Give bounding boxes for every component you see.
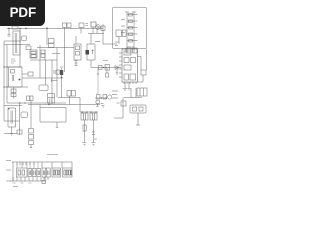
B1 contact a xyxy=(75,46,80,50)
ground G2 xyxy=(92,143,96,147)
C15 plates xyxy=(83,113,85,120)
wire y105.5 xyxy=(4,105,22,107)
capacitor C11 xyxy=(72,91,76,97)
wire R18 leg xyxy=(96,104,98,107)
rung ticks top xyxy=(125,11,136,13)
outer module box right xyxy=(112,7,146,48)
capacitor C13 xyxy=(30,96,33,101)
wire C10 leg xyxy=(69,96,71,105)
relay box B2 xyxy=(87,44,95,60)
wire transformer right leg xyxy=(19,29,21,68)
wire x58 xyxy=(56,48,58,98)
diode D5 xyxy=(129,14,133,17)
wire outer box right drop xyxy=(146,49,148,71)
diode D13 xyxy=(92,132,95,135)
transistor Q1 xyxy=(96,25,101,30)
B2 contact marks xyxy=(92,50,95,55)
capacitor C7 ticks xyxy=(75,61,78,66)
wire bus y104 xyxy=(28,104,100,106)
capacitor C9 xyxy=(141,70,146,75)
J1 pin a xyxy=(18,170,21,175)
wire R7 leg xyxy=(80,28,82,34)
diode D11 xyxy=(133,48,138,53)
output box top xyxy=(137,88,147,96)
J1 pin b xyxy=(22,170,25,175)
resistor R17 xyxy=(83,125,86,131)
wire x40 xyxy=(39,45,41,78)
relay box B1 xyxy=(74,44,81,60)
ground T3 xyxy=(10,134,13,136)
J6 pin b xyxy=(56,170,58,175)
node junction dots top bus xyxy=(8,28,26,29)
J7 pin a xyxy=(64,170,66,175)
wire y112 xyxy=(80,111,98,113)
varistor ladder a xyxy=(29,129,34,134)
resistor R13 xyxy=(17,130,22,134)
bridge rectifier BR1 xyxy=(30,50,37,58)
secondary rail right xyxy=(133,12,135,53)
capacitor CX1 xyxy=(8,29,11,37)
wire stub x117 xyxy=(116,68,118,74)
fuse F1 xyxy=(12,26,18,29)
wire Q2 stub xyxy=(61,68,63,98)
node dots y98 xyxy=(101,97,107,98)
wire bus y97 xyxy=(58,97,80,99)
wire R14 feed xyxy=(97,74,99,95)
resistor R5 xyxy=(41,50,45,54)
wire y41 xyxy=(4,40,21,42)
label text y67 xyxy=(60,66,64,68)
label TH1 xyxy=(117,102,120,104)
U1 inner block e xyxy=(124,74,129,80)
bottom drops xyxy=(13,177,45,181)
page background xyxy=(0,0,149,198)
resistor R8 xyxy=(101,26,105,31)
connector J6 xyxy=(52,168,61,177)
stub wires right rail xyxy=(134,15,138,41)
snubber box RC1 xyxy=(22,36,27,41)
connector J1 xyxy=(17,168,28,177)
bottom row label a xyxy=(6,160,11,162)
U1 pins left xyxy=(119,53,122,77)
wire x76 xyxy=(75,36,77,66)
wire x103 xyxy=(102,24,104,44)
diode D4 xyxy=(67,23,71,28)
wire y67 xyxy=(4,66,22,68)
connector J4 xyxy=(37,169,41,177)
varistor ladder b xyxy=(29,135,34,140)
IC U1 xyxy=(122,49,138,82)
U1 inner block b xyxy=(124,58,129,63)
J7 pin b xyxy=(66,170,68,175)
thermistor TH1 xyxy=(121,101,126,106)
wire y121 xyxy=(4,120,20,122)
node dot x47 xyxy=(46,28,47,29)
wire y133.5 xyxy=(4,133,17,135)
J6 pin c xyxy=(58,170,60,175)
capacitor C10 xyxy=(67,91,71,97)
diode D7 xyxy=(129,27,133,30)
transformer T1 xyxy=(13,31,20,55)
resistor R9 xyxy=(99,66,103,70)
J5b pin xyxy=(48,171,49,176)
node dots bus y67 xyxy=(103,67,121,68)
output box verticals xyxy=(140,88,144,96)
diode D2 xyxy=(28,72,33,76)
transformer T2 aux xyxy=(48,94,55,104)
wire x19.5 xyxy=(19,103,21,135)
T2 dashes xyxy=(50,99,52,103)
snubber box RC2 xyxy=(21,112,28,118)
Q1 legs xyxy=(97,26,100,29)
wire left rail B xyxy=(6,45,8,104)
resistor R10 xyxy=(106,68,108,73)
wire bus y67 xyxy=(91,67,119,69)
B1 contact b xyxy=(75,52,80,56)
resistor R2 cluster xyxy=(11,59,16,63)
ground U1 b xyxy=(128,82,131,90)
connector J7 xyxy=(63,168,73,177)
svg-text:PDF: PDF xyxy=(10,5,36,20)
relay box K1 xyxy=(105,65,110,71)
capacitor C12 xyxy=(27,96,30,101)
secondary rail left xyxy=(126,12,128,53)
ground U1 a xyxy=(123,82,127,90)
inner rect U2 sub xyxy=(11,70,15,74)
optocoupler U3b xyxy=(49,44,55,48)
J5a pin xyxy=(43,171,44,176)
resistor R16 xyxy=(56,70,59,74)
connector J2 xyxy=(28,169,32,177)
T3 core dashes xyxy=(11,111,12,124)
resistor R3 xyxy=(11,89,16,93)
PDF badge xyxy=(0,0,45,26)
wire y33.5 xyxy=(88,33,104,35)
wire y44 right xyxy=(103,43,117,45)
wire U1 right to C9 xyxy=(138,57,142,71)
wire y87 xyxy=(4,86,28,88)
wire loop tail xyxy=(56,122,58,128)
wire y44.5 xyxy=(4,44,30,46)
wire drops to J5 xyxy=(42,162,72,168)
resistor R7 xyxy=(79,23,84,28)
bridge BR1 cells xyxy=(31,52,36,55)
IC U2 switching block xyxy=(9,67,23,87)
capacitor C6 xyxy=(91,22,96,27)
B2 coil blob xyxy=(86,50,90,55)
wire bus y78 xyxy=(22,77,63,79)
wire C15 leg xyxy=(84,120,86,142)
wire bottom bus y162 xyxy=(12,161,72,163)
diode D6 xyxy=(129,20,133,23)
transformer T1 core dashes xyxy=(15,33,17,53)
label text U1 below xyxy=(112,91,118,98)
wire y80.5 xyxy=(52,79,58,82)
U1 inner block d xyxy=(124,65,131,70)
resistor R15 xyxy=(103,95,107,100)
connector CN2 xyxy=(130,105,146,113)
wire C9 leg xyxy=(138,75,144,82)
J3 pin xyxy=(34,171,35,176)
U1 inner block c xyxy=(131,58,136,63)
wire left rail A xyxy=(3,41,5,121)
wire bus y60 xyxy=(30,59,57,61)
capacitor C14 ticks xyxy=(53,71,56,73)
wire stub x98 xyxy=(97,68,99,74)
wire Q1 legs xyxy=(93,27,97,34)
T2 divider xyxy=(48,97,55,99)
capacitor C5 xyxy=(26,46,31,50)
label above bus xyxy=(103,60,108,62)
bottom connector marks xyxy=(42,181,46,184)
bottom tiny text xyxy=(13,186,18,188)
diode D9 xyxy=(129,40,133,43)
J7 pin c xyxy=(69,170,71,175)
wire x65 xyxy=(64,28,66,73)
bottom row label b xyxy=(6,169,11,171)
wire loop rect xyxy=(40,105,66,123)
wire CN2 tail xyxy=(136,113,140,125)
resistor R18 xyxy=(96,101,99,104)
wire x123 xyxy=(114,98,123,119)
capacitor C17 ticks xyxy=(86,24,89,26)
diode D12 xyxy=(115,66,118,70)
label VR1 xyxy=(115,42,119,46)
winding dashes U2 xyxy=(13,75,14,81)
J5 stubs xyxy=(44,177,48,180)
label text L2 xyxy=(95,41,100,43)
J4 pin xyxy=(38,171,39,176)
wire T3 leg xyxy=(11,127,13,133)
bus terminator ticks xyxy=(101,104,105,108)
bottom row label c xyxy=(6,180,11,182)
wire stub y74 xyxy=(22,73,28,75)
wire rails into block2 xyxy=(7,102,66,104)
CN2 pin a xyxy=(133,107,137,111)
C16 plates xyxy=(92,113,94,120)
wire bottom bus y181 xyxy=(10,180,46,182)
CN2 pin b xyxy=(139,107,143,111)
rung wires xyxy=(127,15,134,48)
bottom strip title xyxy=(47,154,58,156)
U1 inner block a xyxy=(124,51,131,55)
node dot Q2 xyxy=(61,77,62,78)
wire top x47 xyxy=(46,27,48,45)
wire ladder tail xyxy=(30,145,32,148)
transistor Q2 xyxy=(60,70,63,75)
connector J5b xyxy=(46,168,50,177)
optocoupler U3a xyxy=(49,39,55,44)
label box L1 xyxy=(39,85,48,91)
wire x45 xyxy=(44,50,47,85)
wire drops J1-J4 xyxy=(17,162,38,169)
resistor R6 xyxy=(41,54,45,58)
J7 pin d xyxy=(70,170,73,175)
resistor R4 xyxy=(11,94,16,97)
U1 pins bottom xyxy=(124,82,136,84)
regulator VR1 xyxy=(116,30,122,37)
pin labels left xyxy=(121,20,125,33)
transformer T3 xyxy=(8,108,16,127)
wire y97 right xyxy=(124,97,142,99)
diode D3 pair xyxy=(63,23,67,28)
resistor R14 xyxy=(97,95,101,100)
lamp M1 xyxy=(108,95,112,99)
capacitor block C16 xyxy=(90,113,97,120)
varistor ladder c xyxy=(29,141,34,145)
diode D8 xyxy=(129,33,133,36)
node dot T2 xyxy=(48,104,49,105)
node dots y103 xyxy=(19,102,49,103)
node dot U2 xyxy=(19,79,21,81)
wire x31 xyxy=(30,101,32,129)
node dots rails xyxy=(3,66,7,87)
wire mains top bus xyxy=(7,28,103,30)
wire R3 leg xyxy=(13,87,15,99)
node dot T3 xyxy=(8,108,9,109)
wire x80 jog xyxy=(79,98,81,113)
wire x91 down xyxy=(90,34,92,68)
wire VR1 leg xyxy=(118,37,120,45)
wire x52 xyxy=(51,60,53,105)
J6 pin a xyxy=(53,170,55,175)
wire C16 leg xyxy=(93,120,95,142)
ground labels xyxy=(94,138,97,140)
capacitor block C15 xyxy=(81,113,88,120)
bottom symbols xyxy=(13,182,32,184)
resistor R10 body xyxy=(106,73,109,77)
wire drop x13 xyxy=(12,162,14,181)
U1 inner block f xyxy=(130,74,136,80)
label text center xyxy=(52,53,60,55)
capacitor C8 xyxy=(123,30,127,37)
wire y47 xyxy=(37,47,74,49)
connector J5a xyxy=(42,168,46,177)
node dots y112 xyxy=(81,111,96,112)
ground G1 xyxy=(83,143,87,147)
wire bus right y98 xyxy=(95,97,107,99)
connector J3 xyxy=(33,169,37,177)
diode D10 xyxy=(126,48,131,53)
wire drops x131 x136 xyxy=(131,88,136,98)
capacitor row ticks xyxy=(17,162,34,166)
J2 pin xyxy=(29,171,30,176)
